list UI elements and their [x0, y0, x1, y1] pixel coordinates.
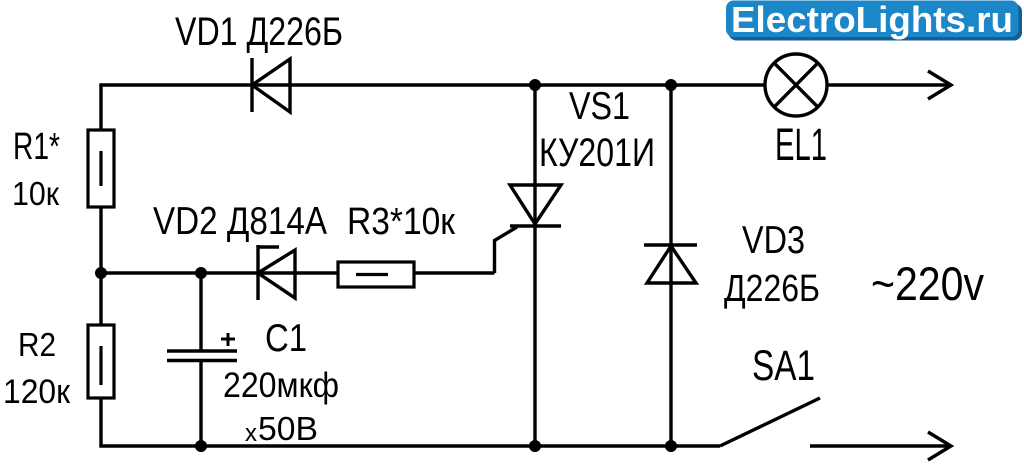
svg-text:R3*10к: R3*10к	[347, 201, 455, 243]
wire top horizontal	[99, 83, 950, 86]
svg-text:R1*: R1*	[13, 126, 60, 168]
node bottom thyristor junction	[529, 440, 541, 452]
capacitor C1	[167, 333, 237, 361]
node middle left junction	[95, 267, 107, 279]
thyristor VS1	[510, 185, 561, 226]
node middle C1 junction	[195, 267, 207, 279]
resistor R3	[338, 262, 414, 287]
svg-text:220мкф: 220мкф	[223, 366, 339, 405]
wire thyristor branch vertical	[533, 85, 536, 446]
wire middle horizontal	[101, 271, 495, 274]
svg-text:SA1: SA1	[752, 342, 815, 390]
wire bottom output	[810, 444, 950, 447]
arrow top output	[928, 71, 951, 99]
resistor R1	[88, 130, 114, 207]
node top thyristor junction	[529, 79, 541, 91]
svg-text:VD3: VD3	[742, 219, 805, 262]
wire bottom horizontal	[99, 444, 720, 447]
resistor R2	[88, 325, 114, 398]
svg-text:120к: 120к	[3, 373, 71, 411]
node bottom C1 junction	[195, 440, 207, 452]
wire left rail vertical	[99, 85, 102, 446]
switch SA1 blade	[720, 398, 820, 446]
svg-text:50В: 50В	[258, 410, 318, 447]
wire VD3 branch vertical	[669, 85, 672, 446]
svg-text:х: х	[245, 420, 257, 447]
svg-text:10к: 10к	[12, 175, 60, 212]
lamp EL1	[765, 54, 827, 116]
wire C1 branch lower	[199, 361, 202, 446]
diode VD3	[644, 245, 697, 283]
zener diode VD2	[258, 245, 295, 300]
svg-text:Д226Б: Д226Б	[724, 268, 820, 310]
svg-text:VS1: VS1	[569, 85, 630, 128]
wire C1 branch upper	[199, 273, 202, 350]
svg-text:ElectroLights.ru: ElectroLights.ru	[731, 0, 1013, 40]
svg-text:~220v: ~220v	[871, 257, 984, 310]
svg-text:С1: С1	[265, 317, 307, 360]
diode VD1	[252, 58, 290, 112]
arrow bottom output	[928, 432, 951, 460]
node bottom VD3 junction	[665, 440, 677, 452]
svg-text:R2: R2	[18, 326, 56, 363]
wire gate bend	[495, 227, 518, 273]
node top VD3 junction	[665, 79, 677, 91]
svg-text:КУ201И: КУ201И	[539, 131, 655, 175]
svg-text:VD2 Д814А: VD2 Д814А	[153, 200, 327, 243]
svg-text:VD1 Д226Б: VD1 Д226Б	[175, 10, 343, 54]
logo ElectroLights.ru	[726, 0, 1022, 41]
svg-text:EL1: EL1	[775, 119, 827, 170]
